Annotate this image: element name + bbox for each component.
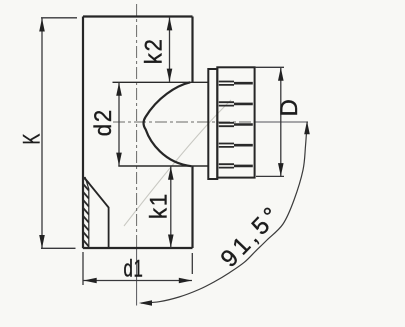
bore top line [113,81,209,83]
k1 dimension [170,166,172,248]
K dimension [41,18,77,249]
body outline [83,17,193,249]
svg-text:d2: d2 [89,108,116,136]
k2 dimension [169,17,171,82]
branch axis extension to angle arrow [255,121,308,123]
thread bars [219,82,253,168]
branch thread body [217,67,254,177]
centerline vertical (main pipe axis) [136,4,138,248]
bore bottom line [118,165,208,167]
angle arc 91.5 deg [141,122,307,304]
branch flange [208,69,217,179]
svg-text:D: D [276,99,303,116]
centerline horizontal (branch axis) [113,121,255,123]
svg-text:d1: d1 [124,256,144,283]
D dimension [255,67,284,176]
hatched wall section [83,178,89,249]
socket chamfer [85,179,109,249]
svg-text:K: K [18,133,45,144]
faint pencil construction arc [124,100,231,226]
bullet intersection curve [144,82,192,166]
d2 dimension [118,83,120,166]
centerline vertical extension below body (angle leg) [136,248,138,306]
svg-text:k1: k1 [145,192,172,219]
svg-text:k2: k2 [140,37,167,64]
d1 dimension [83,252,192,285]
